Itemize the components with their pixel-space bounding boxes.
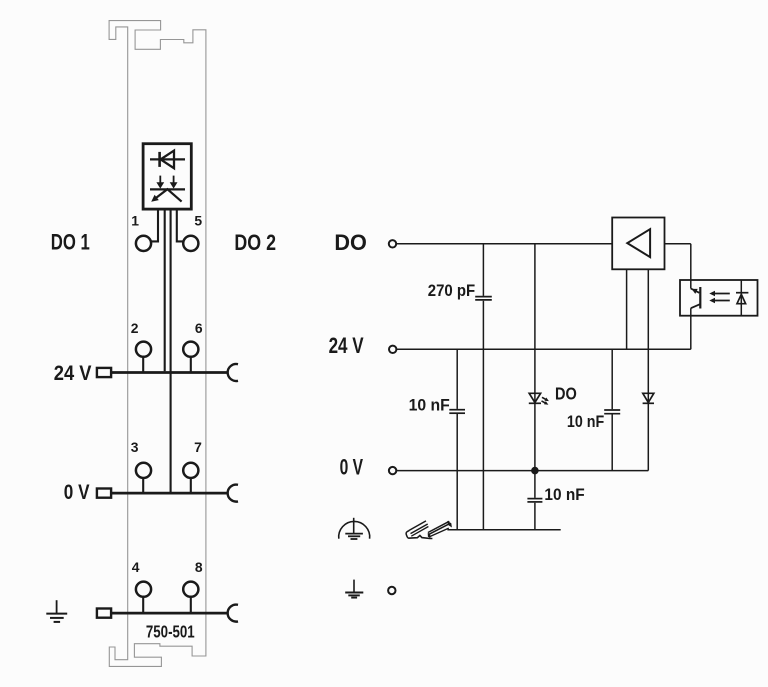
svg-text:6: 6 [195,320,203,336]
svg-text:10 nF: 10 nF [567,413,604,431]
svg-text:5: 5 [194,213,202,229]
svg-text:24 V: 24 V [54,361,92,385]
svg-text:DO 1: DO 1 [51,230,90,255]
svg-text:1: 1 [131,213,139,229]
svg-text:7: 7 [194,439,202,455]
svg-text:270 pF: 270 pF [428,282,475,300]
svg-text:0 V: 0 V [340,455,364,480]
svg-text:0 V: 0 V [64,480,90,504]
svg-text:DO: DO [555,385,577,404]
svg-text:10 nF: 10 nF [544,486,584,504]
svg-text:8: 8 [195,559,203,575]
svg-text:DO 2: DO 2 [234,230,276,255]
svg-text:DO: DO [334,230,367,255]
svg-text:4: 4 [132,559,140,575]
svg-text:24 V: 24 V [329,333,364,358]
svg-text:750-501: 750-501 [146,621,195,641]
svg-text:3: 3 [131,439,139,455]
svg-text:10 nF: 10 nF [409,397,450,415]
svg-text:2: 2 [131,320,139,336]
